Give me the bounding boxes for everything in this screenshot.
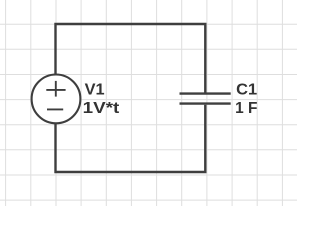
- svg-text:V1: V1: [85, 81, 105, 98]
- svg-text:1 F: 1 F: [235, 100, 257, 117]
- svg-text:C1: C1: [236, 81, 257, 98]
- svg-text:1V*t: 1V*t: [83, 100, 120, 117]
